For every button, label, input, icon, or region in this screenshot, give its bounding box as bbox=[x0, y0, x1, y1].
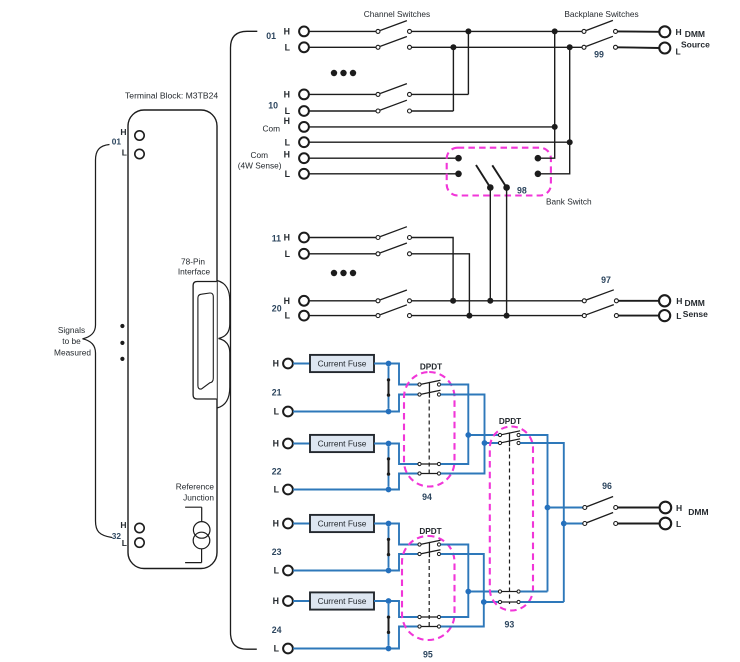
svg-text:H: H bbox=[284, 296, 290, 306]
terminal DMM Source L bbox=[659, 43, 670, 54]
svg-text:H: H bbox=[273, 519, 279, 529]
channel switch 20 L bbox=[376, 314, 380, 318]
wire 95 pole4 to bus bbox=[441, 602, 484, 627]
svg-text:Reference: Reference bbox=[176, 481, 215, 491]
svg-text:L: L bbox=[285, 249, 291, 259]
block terminal 01 L bbox=[135, 149, 144, 158]
wire 10H terminal to switch bbox=[309, 93, 376, 95]
backplane switch 99 H bbox=[582, 29, 586, 33]
junction 22H bbox=[386, 441, 392, 447]
svg-text:H: H bbox=[284, 233, 290, 243]
wire 23H terminal to fuse bbox=[293, 523, 310, 525]
svg-text:H: H bbox=[676, 27, 682, 37]
terminal terminal Com H bbox=[299, 122, 309, 132]
bank switch arm 2 bbox=[492, 165, 506, 187]
svg-text:Interface: Interface bbox=[178, 267, 211, 277]
terminal DMM L bbox=[660, 518, 672, 530]
svg-text:L: L bbox=[285, 169, 291, 179]
svg-text:Backplane Switches: Backplane Switches bbox=[564, 9, 638, 19]
svg-text:96: 96 bbox=[602, 481, 612, 491]
svg-text:L: L bbox=[274, 407, 280, 417]
wire 95 pole1 to 93 bbox=[441, 545, 499, 592]
svg-text:Current Fuse: Current Fuse bbox=[318, 359, 367, 369]
svg-text:DPDT: DPDT bbox=[499, 417, 521, 426]
terminal 22 H bbox=[283, 439, 293, 449]
junction 01L x453 bbox=[450, 44, 456, 50]
DPDT 93 switches bottom pair bbox=[498, 590, 501, 593]
svg-text:01: 01 bbox=[266, 31, 276, 41]
wire Com 4W L to bank switch bbox=[309, 173, 456, 175]
wire 95 pole3 to bus bbox=[441, 592, 469, 618]
svg-text:(4W Sense): (4W Sense) bbox=[238, 160, 282, 170]
wire 21L terminal to DPDT bbox=[293, 395, 418, 412]
wire 01H switch to backplane switch bbox=[412, 30, 583, 32]
junction 93 row2 left bbox=[482, 440, 488, 446]
wire 96L to DMM L bbox=[618, 523, 660, 525]
svg-text:L: L bbox=[285, 42, 291, 52]
wire Com L bus up to 01L bbox=[569, 47, 571, 142]
svg-text:Current Fuse: Current Fuse bbox=[318, 439, 367, 449]
svg-text:H: H bbox=[273, 359, 279, 369]
svg-text:Terminal Block: M3TB24: Terminal Block: M3TB24 bbox=[125, 90, 218, 100]
protection switch channel 21 bbox=[388, 366, 390, 380]
wire 93 pole4 to bus bbox=[520, 601, 564, 603]
svg-text:L: L bbox=[285, 106, 291, 116]
DPDT 95 mechanical link bbox=[428, 559, 430, 629]
svg-text:L: L bbox=[274, 644, 280, 654]
svg-text:DPDT: DPDT bbox=[419, 527, 441, 536]
wire 01L switch to backplane switch bbox=[412, 46, 583, 48]
svg-text:78-Pin: 78-Pin bbox=[181, 256, 205, 266]
junction 01L x570 bbox=[567, 44, 573, 50]
junction 20H x490 bbox=[487, 298, 493, 304]
block terminal 01 H bbox=[135, 131, 144, 140]
svg-text:24: 24 bbox=[272, 625, 282, 635]
wire 21H terminal to fuse bbox=[293, 363, 310, 365]
wire 99H to DMM Source H bbox=[618, 30, 660, 32]
terminal terminal Com L bbox=[299, 137, 309, 147]
svg-text:L: L bbox=[122, 538, 127, 548]
junction 20L x506 bbox=[504, 313, 510, 319]
DPDT 94 mechanical link bbox=[428, 400, 430, 477]
bank switch left contact H bbox=[455, 155, 462, 162]
svg-text:11: 11 bbox=[272, 234, 281, 244]
DPDT 93 mechanical link bbox=[509, 448, 511, 605]
junction 93 row1 left bbox=[465, 432, 471, 438]
wire 10H switch to bus bbox=[412, 93, 469, 95]
ellipsis channels 02-09 bbox=[331, 70, 337, 76]
svg-text:H: H bbox=[120, 127, 126, 137]
channel switch 10 L bbox=[376, 109, 380, 113]
svg-text:H: H bbox=[676, 296, 682, 306]
wire 97L to DMM Sense L bbox=[618, 315, 659, 317]
svg-text:21: 21 bbox=[272, 388, 282, 398]
svg-text:H: H bbox=[284, 26, 290, 36]
bank switch 98 enclosure bbox=[447, 148, 551, 196]
svg-text:97: 97 bbox=[601, 275, 611, 285]
wire 22L terminal to DPDT bbox=[293, 474, 418, 490]
wire 94 pole3 to bus bbox=[441, 435, 469, 464]
svg-text:DMM: DMM bbox=[685, 298, 705, 308]
svg-text:to be: to be bbox=[62, 336, 81, 346]
terminal DMM Sense H bbox=[659, 295, 670, 306]
wire 93 pole3 to bus bbox=[520, 591, 547, 593]
current fuse F23 bbox=[310, 515, 374, 532]
junction DMM L bus bbox=[561, 521, 567, 527]
bank switch right contact H bbox=[535, 155, 542, 162]
svg-text:20: 20 bbox=[272, 303, 282, 313]
terminal 21 H bbox=[283, 359, 293, 369]
wire 93 pole1 to bus bbox=[520, 435, 547, 592]
svg-text:Com: Com bbox=[262, 124, 280, 134]
channel switch 01 H bbox=[376, 29, 380, 33]
svg-text:L: L bbox=[274, 566, 280, 576]
junction 20L x469 bbox=[466, 313, 472, 319]
wire 10L switch to bus bbox=[412, 110, 454, 112]
78-pin interface connector outer bbox=[193, 282, 217, 400]
terminal block outline M3TB24 bbox=[128, 110, 217, 569]
svg-text:H: H bbox=[284, 89, 290, 99]
svg-text:H: H bbox=[284, 150, 290, 160]
current fuse F21 bbox=[310, 355, 374, 372]
svg-text:Com: Com bbox=[250, 150, 268, 160]
junction 23H bbox=[386, 521, 392, 527]
bank switch arm pivot 1 bbox=[487, 184, 494, 191]
terminal DMM Source H bbox=[659, 26, 670, 37]
svg-text:99: 99 bbox=[594, 49, 604, 59]
terminal terminal Com 4W Sense L bbox=[299, 169, 309, 179]
svg-text:22: 22 bbox=[272, 467, 282, 477]
wire bus 01L to 10L bbox=[452, 47, 454, 111]
svg-text:Junction: Junction bbox=[183, 492, 214, 502]
terminal 23 L bbox=[283, 566, 293, 576]
wire 24H terminal to fuse bbox=[293, 600, 310, 602]
junction 20H x453 bbox=[450, 298, 456, 304]
bank switch arm 1 bbox=[476, 165, 490, 188]
wire 11L terminal to switch bbox=[309, 253, 376, 255]
wire 11L switch to bus bbox=[412, 254, 470, 316]
wire 20L terminal to switch bbox=[309, 315, 376, 317]
wire Com L bbox=[309, 141, 570, 143]
terminal channel 10 H bbox=[299, 90, 309, 100]
svg-text:DMM: DMM bbox=[688, 507, 708, 517]
switch 96 H bbox=[583, 506, 587, 510]
cable bracket from block to channel rows bbox=[231, 31, 258, 649]
svg-text:Source: Source bbox=[681, 40, 710, 50]
wire 24L terminal to DPDT bbox=[293, 627, 418, 649]
svg-text:Bank Switch: Bank Switch bbox=[546, 197, 592, 207]
junction Com H bbox=[552, 124, 558, 130]
svg-text:L: L bbox=[285, 137, 291, 147]
wire 01L terminal to switch bbox=[309, 46, 376, 48]
switch 97 L bbox=[582, 314, 586, 318]
wire fuse F21 to DPDT bbox=[374, 364, 418, 385]
bank switch right contact L bbox=[535, 171, 542, 178]
terminal channel 01 L bbox=[299, 42, 309, 52]
DPDT 95 switches top pair bbox=[418, 543, 421, 546]
DPDT 95 enclosure bbox=[402, 536, 455, 640]
terminal channel 20 L bbox=[299, 311, 309, 321]
wire 99L to DMM Source L bbox=[618, 46, 660, 49]
protection switch channel 24 bbox=[388, 604, 390, 617]
wire 20H terminal to switch bbox=[309, 300, 376, 302]
svg-text:Measured: Measured bbox=[54, 347, 91, 357]
wire 11H terminal to switch bbox=[309, 237, 376, 239]
terminal 23 H bbox=[283, 519, 293, 529]
terminal channel 11 H bbox=[299, 233, 309, 243]
svg-text:H: H bbox=[676, 503, 682, 513]
terminal 22 L bbox=[283, 485, 293, 495]
DPDT 93 enclosure bbox=[490, 427, 533, 611]
wire 97H to DMM Sense H bbox=[618, 300, 659, 302]
terminal 24 L bbox=[283, 644, 293, 654]
svg-text:Channel Switches: Channel Switches bbox=[364, 9, 430, 19]
junction 22L bbox=[386, 487, 392, 493]
svg-text:Current Fuse: Current Fuse bbox=[318, 519, 367, 529]
terminal channel 20 H bbox=[299, 296, 309, 306]
bank switch arm pivot 2 bbox=[503, 184, 510, 191]
wire 23L terminal to DPDT bbox=[293, 554, 418, 571]
terminal terminal Com 4W Sense H bbox=[299, 153, 309, 163]
svg-text:93: 93 bbox=[505, 619, 515, 629]
channel switch 11 H bbox=[376, 236, 380, 240]
78-pin interface connector inner D-shape bbox=[198, 293, 213, 389]
wire Com 4W H to bank switch bbox=[309, 157, 456, 159]
svg-text:01: 01 bbox=[112, 137, 122, 147]
block terminal 32 H bbox=[135, 523, 144, 532]
svg-text:98: 98 bbox=[517, 186, 527, 196]
wire fuse F24 to DPDT bbox=[374, 601, 418, 617]
svg-text:L: L bbox=[285, 311, 291, 321]
wire 94 pole4 to bus bbox=[441, 443, 485, 474]
junction 24H bbox=[386, 598, 392, 604]
channel switch 10 H bbox=[376, 92, 380, 96]
terminal channel 10 L bbox=[299, 106, 309, 116]
wire bank right L to Com L bus bbox=[541, 142, 570, 174]
svg-text:L: L bbox=[676, 519, 681, 529]
svg-text:10: 10 bbox=[268, 101, 278, 111]
ellipsis channels 12-19 bbox=[331, 270, 337, 276]
channel switch 20 H bbox=[376, 299, 380, 303]
svg-text:Signals: Signals bbox=[58, 325, 85, 335]
wire 20L bus to switch 97 bbox=[412, 315, 583, 317]
wire 20H bus to switch 97 bbox=[412, 300, 583, 302]
switch 97 H bbox=[582, 299, 586, 303]
backplane switch 99 L bbox=[582, 45, 586, 49]
bank switch left contact L bbox=[455, 171, 462, 178]
svg-text:L: L bbox=[676, 311, 681, 321]
terminal channel 11 L bbox=[299, 249, 309, 259]
wire 22H terminal to fuse bbox=[293, 443, 310, 445]
wire 11H switch to bus bbox=[412, 238, 454, 301]
terminal channel 01 H bbox=[299, 27, 309, 37]
wire bus to switch 96 L bbox=[564, 523, 583, 525]
wire bank right H to Com H bus bbox=[541, 127, 555, 158]
wire bus to switch 96 H bbox=[548, 507, 583, 509]
protection switch channel 22 bbox=[388, 446, 390, 459]
wire 96H to DMM H bbox=[618, 507, 660, 509]
junction DMM H bus bbox=[545, 505, 551, 511]
wire bus 01H to 10H bbox=[467, 31, 469, 94]
wire 95 pole2 to 93 bbox=[441, 554, 499, 602]
terminal 21 L bbox=[283, 407, 293, 417]
svg-text:L: L bbox=[122, 147, 127, 157]
wire 94 pole1 to 93 bbox=[441, 385, 499, 436]
svg-text:95: 95 bbox=[423, 650, 433, 660]
DPDT 94 switches bottom pair bbox=[418, 462, 421, 465]
wire 93 pole2 to bus bbox=[520, 443, 564, 602]
svg-text:DMM: DMM bbox=[685, 29, 705, 39]
svg-text:H: H bbox=[284, 116, 290, 126]
wire 10L terminal to switch bbox=[309, 110, 376, 112]
svg-text:32: 32 bbox=[112, 531, 122, 541]
junction 93 row4 left bbox=[481, 599, 487, 605]
wire 94 pole2 to 93 bbox=[441, 395, 499, 444]
protection switch channel 23 bbox=[388, 526, 390, 539]
terminal 24 H bbox=[283, 596, 293, 606]
svg-text:L: L bbox=[676, 47, 681, 57]
wire Com H bus up to 01H bbox=[554, 31, 556, 127]
DPDT 94 switches top pair bbox=[418, 383, 421, 386]
switch 96 L bbox=[583, 522, 587, 526]
junction 21L bbox=[386, 409, 392, 415]
svg-text:23: 23 bbox=[272, 547, 282, 557]
ellipsis dots left of block bbox=[120, 324, 124, 328]
svg-text:H: H bbox=[273, 439, 279, 449]
DPDT 95 switches bottom pair bbox=[418, 615, 421, 618]
junction 23L bbox=[386, 568, 392, 574]
DPDT 94 enclosure bbox=[404, 372, 455, 487]
wire bank pivot 1 down to 20H bbox=[489, 188, 491, 301]
junction 01H x555 bbox=[552, 28, 558, 34]
svg-text:Current Fuse: Current Fuse bbox=[318, 596, 367, 606]
junction 01H x468 bbox=[465, 28, 471, 34]
svg-text:H: H bbox=[120, 520, 126, 530]
svg-text:DPDT: DPDT bbox=[420, 363, 442, 372]
junction 93 row3 left bbox=[465, 589, 471, 595]
junction 21H bbox=[386, 361, 392, 367]
channel switch 11 L bbox=[376, 252, 380, 256]
reference junction symbol bbox=[185, 506, 202, 508]
svg-text:L: L bbox=[274, 485, 280, 495]
terminal DMM Sense L bbox=[659, 310, 670, 321]
wire fuse F23 to DPDT bbox=[374, 524, 418, 545]
junction 24L bbox=[386, 646, 392, 652]
wire 01H terminal to switch bbox=[309, 30, 376, 32]
svg-text:Sense: Sense bbox=[683, 309, 708, 319]
DPDT 93 switches top pair bbox=[498, 433, 501, 436]
brace on block right edge at connector bbox=[217, 281, 230, 409]
wire fuse F22 to DPDT bbox=[374, 444, 418, 465]
svg-text:94: 94 bbox=[422, 492, 432, 502]
terminal DMM H bbox=[660, 502, 672, 514]
block terminal 32 L bbox=[135, 538, 144, 547]
wire bank pivot 2 down to 20L bbox=[506, 188, 508, 316]
current fuse F22 bbox=[310, 435, 374, 452]
wire Com H bbox=[309, 126, 555, 128]
svg-text:H: H bbox=[273, 596, 279, 606]
junction Com L bbox=[567, 139, 573, 145]
current fuse F24 bbox=[310, 592, 374, 609]
channel switch 01 L bbox=[376, 45, 380, 49]
brace Signals to be Measured bbox=[83, 145, 113, 538]
